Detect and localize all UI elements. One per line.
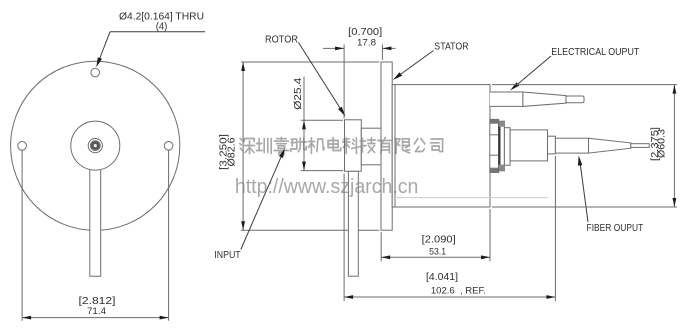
svg-text:FIBER OUPUT: FIBER OUPUT [587, 223, 644, 234]
svg-text:[4.041]: [4.041] [426, 271, 458, 283]
dim 17.8: extension lines [344, 45, 382, 119]
fiber connector cylinder body [510, 130, 547, 161]
svg-text:http://www.szjarch.cn: http://www.szjarch.cn [235, 176, 419, 198]
svg-text:17.8: 17.8 [357, 38, 376, 49]
dim O25.4: extension lines [301, 120, 343, 170]
svg-text:ROTOR: ROTOR [265, 34, 298, 45]
front view: flange disc O82.6 [11, 61, 180, 230]
label ELECTRICAL OUPUT with leader [510, 47, 639, 90]
label STATOR with leader [393, 42, 469, 81]
side view: rotor flange plate O82.6 [381, 62, 392, 230]
fiber boot taper [589, 138, 631, 153]
dim O82.6: vertical dimension line with arrows [241, 62, 245, 230]
side view: stator left inner edge line [394, 85, 396, 207]
side view: neck between hub and flange [361, 128, 381, 165]
svg-text:[0.700]: [0.700] [348, 26, 382, 38]
svg-text:53.1: 53.1 [429, 246, 446, 257]
fiber connector ring 2 [499, 121, 505, 171]
dim 53.1: extension lines [381, 209, 490, 261]
dimension 71.4: dimension line with arrows [22, 316, 169, 320]
dim text [0.700] 17.8 [348, 26, 382, 49]
svg-text:71.4: 71.4 [87, 306, 106, 317]
fiber end stub [631, 144, 649, 148]
electrical pigtail end stub [566, 96, 584, 103]
dim text [4.041] 102.6 REF [426, 271, 486, 297]
svg-text:INPUT: INPUT [214, 250, 240, 261]
svg-text:102.6 , REF.: 102.6 , REF. [431, 286, 486, 297]
dim O60.3: dimension line with arrows [673, 85, 677, 207]
leader O4.2 THRU to top bolt hole [96, 32, 205, 68]
fiber connector step ring [548, 136, 556, 154]
svg-text:Ø82.6: Ø82.6 [225, 137, 237, 166]
dim 17.8: dimension line with outside arrows [323, 47, 396, 51]
dimension text [2.812] 71.4 [79, 295, 116, 317]
fiber connector ring 3 [504, 128, 510, 166]
front view: bolt hole top [91, 68, 100, 77]
front view: bolt hole left [18, 142, 27, 151]
dim text O4.2[0.164] THRU (4) [119, 10, 204, 32]
label INPUT with leader [214, 148, 285, 261]
side view: stator body O60.3 [392, 85, 490, 207]
electrical pigtail taper [523, 92, 566, 106]
dim text [2.375] O60.3 rotated [650, 127, 668, 161]
dim O60.3: extension lines [492, 85, 677, 207]
svg-text:[2.090]: [2.090] [422, 233, 456, 245]
electrical pigtail cable body [490, 92, 523, 106]
svg-text:(4): (4) [156, 22, 168, 33]
front view: bolt hole right [164, 142, 173, 151]
dim O82.6: extension lines [241, 62, 379, 230]
side view: input fiber tube hanging down [348, 171, 358, 276]
svg-text:Ø60.3: Ø60.3 [657, 129, 668, 158]
dim O25.4: dimension line with arrows [302, 77, 306, 171]
side view: faint tangent edge line [392, 197, 548, 199]
dimension 71.4 bolt circle: extension lines [22, 151, 169, 321]
label ROTOR with leader [265, 34, 345, 116]
dim 53.1: dimension line with arrows [381, 255, 490, 259]
svg-text:STATOR: STATOR [434, 42, 468, 53]
front view: center boss circle O25.4 [71, 121, 120, 170]
watermark chinese company name (vector stroke approximation) [240, 137, 443, 154]
side view: rotor hub O25.4 [345, 120, 362, 171]
dim text [2.090] 53.1 [422, 233, 456, 257]
svg-text:Ø4.2[0.164] THRU: Ø4.2[0.164] THRU [119, 10, 204, 22]
fiber connector nut ring 1 [490, 119, 499, 172]
label FIBER OUPUT with leader [578, 156, 643, 234]
svg-text:ELECTRICAL OUPUT: ELECTRICAL OUPUT [551, 47, 639, 58]
front view: input fiber tube (shaft) hanging down [90, 169, 101, 277]
dim text [3.250] O82.6 rotated [218, 134, 238, 170]
front view: fiber connector face rings [88, 139, 102, 153]
dim 102.6 REF: extension lines [344, 156, 555, 301]
svg-text:Ø25.4: Ø25.4 [292, 78, 304, 110]
dim 102.6 REF: dimension line with arrows [344, 295, 555, 299]
fiber boot straight tube [555, 138, 588, 153]
